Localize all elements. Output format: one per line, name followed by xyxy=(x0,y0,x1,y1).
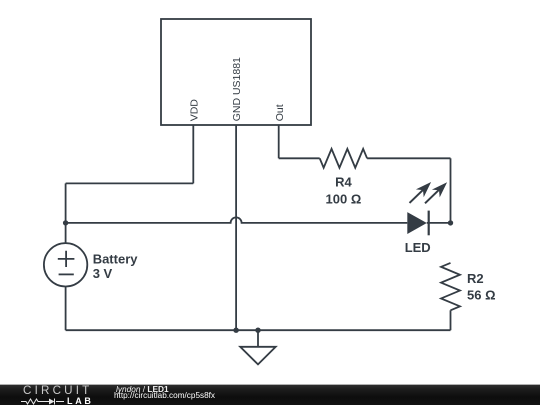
wire bottom horizontal xyxy=(66,329,451,331)
svg-text:R4: R4 xyxy=(335,175,352,190)
IC U1 US1881 body xyxy=(161,19,311,125)
wire right vertical upper xyxy=(450,158,452,223)
wire VDD pin vertical xyxy=(192,125,194,183)
svg-text:56 Ω: 56 Ω xyxy=(467,288,496,303)
svg-text:Battery: Battery xyxy=(93,251,139,266)
junction dot LED cathode node xyxy=(448,220,453,225)
junction dot battery node xyxy=(63,220,68,225)
svg-text:LED: LED xyxy=(405,240,431,255)
battery minus sign xyxy=(59,273,74,275)
wire LED cathode to right rail xyxy=(427,222,451,224)
meta text line 1 xyxy=(116,385,169,393)
wire middle horizontal with hop over GND wire xyxy=(66,217,408,223)
LED arrow 1 xyxy=(409,189,424,204)
svg-text:GND US1881: GND US1881 xyxy=(231,57,243,121)
ground symbol triangle xyxy=(240,347,276,365)
LED arrow 2 xyxy=(424,189,439,204)
wire top-left horizontal to battery xyxy=(66,182,194,184)
battery V1 circle xyxy=(44,243,87,286)
wire Out pin vertical xyxy=(278,125,280,158)
wire GND pin vertical xyxy=(235,125,237,330)
battery plus sign xyxy=(58,251,75,267)
logo schematic squiggle xyxy=(21,397,67,405)
wire Out to R4 xyxy=(279,157,320,159)
resistor R2 zigzag xyxy=(441,263,460,310)
meta text line 2 xyxy=(114,392,215,400)
resistor R4 zigzag xyxy=(320,149,367,168)
svg-text:VDD: VDD xyxy=(188,99,200,122)
wire R4 to right corner xyxy=(367,157,450,159)
wire ground stub xyxy=(257,330,259,347)
svg-text:Out: Out xyxy=(274,104,286,121)
logo word LAB xyxy=(67,397,94,405)
svg-text:R2: R2 xyxy=(467,271,484,286)
logo word CIRCUIT xyxy=(23,386,92,396)
junction dot GND at bottom rail xyxy=(233,328,238,333)
watermark bar xyxy=(0,384,540,405)
wire right vertical lower xyxy=(450,310,452,330)
junction dot ground stub xyxy=(255,328,260,333)
LED D1 triangle xyxy=(407,212,427,234)
wire battery positive vertical xyxy=(65,183,67,243)
svg-text:3 V: 3 V xyxy=(93,266,113,281)
wire battery negative vertical xyxy=(65,287,67,331)
LED cathode bar xyxy=(428,211,430,236)
svg-text:100 Ω: 100 Ω xyxy=(326,191,362,206)
